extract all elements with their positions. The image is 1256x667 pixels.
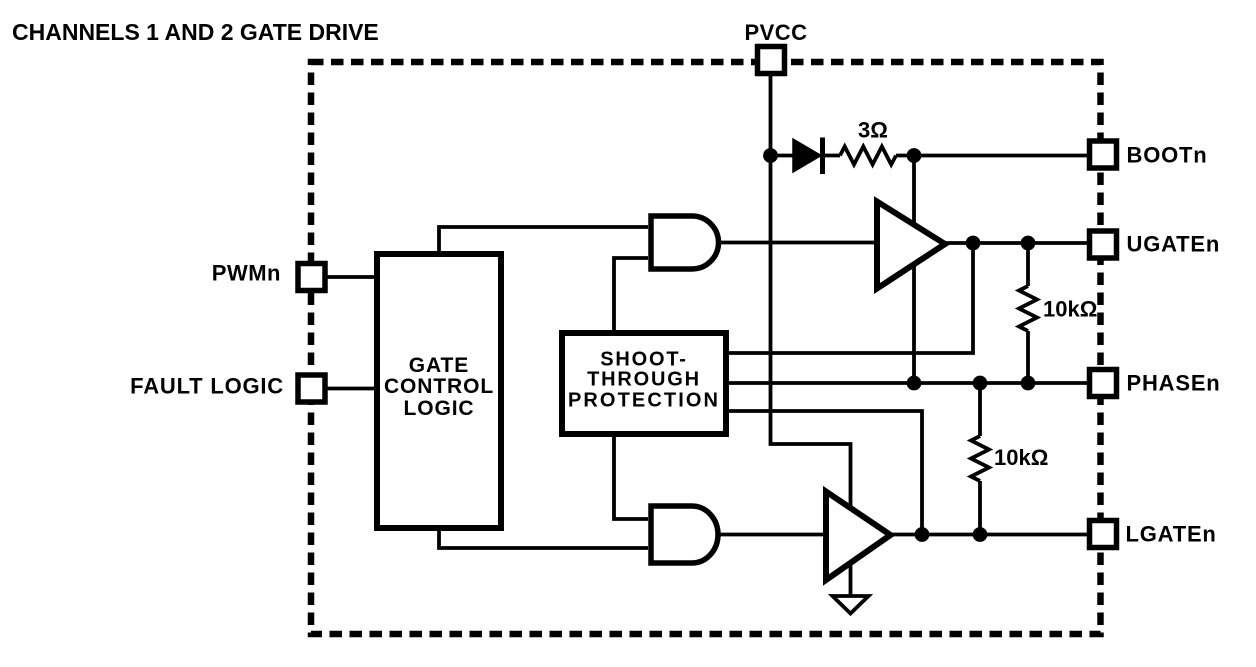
wire PVCC rail down and over to lower buffer	[771, 76, 851, 595]
junction node UGATE 10k top	[1021, 236, 1036, 251]
pin UGATEn	[1090, 231, 1117, 258]
junction node LGATE sense	[915, 527, 930, 542]
resistor 10k upper zigzag	[1019, 286, 1037, 331]
svg-text:LGATEn: LGATEn	[1126, 522, 1217, 547]
svg-text:3Ω: 3Ω	[858, 118, 888, 143]
wire upper buffer output to UGATEn pin	[940, 241, 1089, 245]
wire PWMn to GCL	[325, 275, 377, 279]
svg-text:FAULT LOGIC: FAULT LOGIC	[130, 374, 284, 399]
wire GCL top output to upper AND gate input A	[439, 227, 648, 254]
wire PHASE line shoot-through to PHASEn pin	[729, 381, 1089, 385]
junction node LGATE 10k bottom	[973, 527, 988, 542]
wire PVCC to diode anode	[771, 154, 794, 158]
wire lower buffer output to LGATEn pin	[886, 533, 1089, 537]
svg-text:BOOTn: BOOTn	[1127, 143, 1208, 168]
svg-text:10kΩ: 10kΩ	[1043, 297, 1097, 322]
wire shoot-through bottom to lower AND gate input A	[614, 437, 648, 519]
svg-text:UGATEn: UGATEn	[1127, 232, 1221, 257]
junction node PVCC-diode	[763, 148, 778, 163]
wire bootstrap rail through upper buffer to PHASE	[912, 156, 916, 384]
wire FAULT LOGIC to GCL	[325, 387, 377, 391]
junction node PHASE boot rail	[907, 376, 922, 391]
pin LGATEn	[1090, 521, 1117, 548]
AND gate upper	[651, 216, 719, 269]
shoot-through protection box	[562, 333, 726, 434]
svg-text:PWMn: PWMn	[212, 261, 281, 286]
pin BOOTn	[1090, 141, 1117, 168]
buffer lower driver	[826, 492, 891, 581]
junction node PHASE 10k lower top	[973, 376, 988, 391]
wire diode cathode to resistor	[823, 154, 841, 158]
pin PVCC	[758, 47, 785, 74]
wire resistor to BOOTn pin	[896, 154, 1089, 158]
wire lower AND output to lower buffer	[718, 533, 826, 537]
resistor 10k upper leads	[1026, 243, 1030, 383]
wire LGATE sense to shoot-through protection	[729, 411, 922, 535]
svg-text:PROTECTION: PROTECTION	[568, 390, 720, 412]
pin PWMn	[298, 264, 325, 291]
junction node PHASE 10k upper bottom	[1021, 376, 1036, 391]
junction node boot rail	[907, 148, 922, 163]
svg-text:CONTROL: CONTROL	[384, 375, 494, 398]
svg-text:GATE: GATE	[409, 354, 469, 377]
svg-text:LOGIC: LOGIC	[404, 397, 475, 420]
AND gate lower	[651, 506, 718, 563]
svg-text:PHASEn: PHASEn	[1127, 371, 1221, 396]
junction node UGATE sense	[966, 236, 981, 251]
svg-text:THROUGH: THROUGH	[587, 369, 701, 391]
pin FAULT LOGIC	[298, 375, 325, 402]
svg-text:SHOOT-: SHOOT-	[600, 349, 687, 371]
diode D1	[793, 139, 821, 172]
resistor 3ohm zigzag	[840, 147, 896, 165]
gate control logic box	[377, 254, 501, 528]
wire upper AND output to upper buffer	[718, 241, 878, 245]
wire GCL bottom output to lower AND gate input B	[439, 526, 648, 548]
svg-text:CHANNELS 1 AND 2 GATE DRIVE: CHANNELS 1 AND 2 GATE DRIVE	[12, 19, 379, 45]
svg-text:10kΩ: 10kΩ	[994, 445, 1048, 470]
wire shoot-through top to upper AND gate input B	[614, 258, 648, 333]
pin PHASEn	[1090, 370, 1117, 397]
wire UGATE sense to shoot-through protection	[729, 243, 973, 353]
buffer upper driver	[877, 202, 945, 289]
resistor 10k lower leads	[978, 383, 982, 535]
resistor 10k lower zigzag	[971, 436, 989, 481]
IC boundary dashed box	[311, 62, 1101, 634]
svg-text:PVCC: PVCC	[744, 20, 807, 45]
ground	[833, 596, 869, 614]
